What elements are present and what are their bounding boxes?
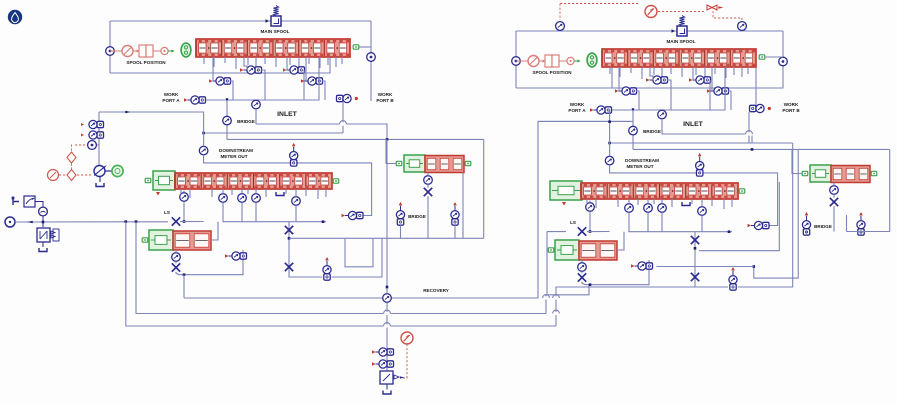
supply port circle bbox=[5, 217, 15, 227]
pressure pair b4r left bbox=[453, 202, 457, 205]
wire drop meter-5 right bbox=[671, 199, 673, 207]
wire drop meter-7 left bbox=[305, 189, 307, 196]
node left right bbox=[512, 57, 521, 66]
wire drop meter-3 left bbox=[231, 189, 233, 195]
svg-text:LS: LS bbox=[570, 220, 576, 225]
wire b3 curve left bbox=[176, 250, 243, 275]
wire drop m2 right bbox=[647, 199, 649, 204]
wire drop meter-5 left bbox=[265, 189, 267, 197]
wire bump at 387,326 bbox=[384, 324, 391, 327]
transducer pair d left bbox=[301, 79, 304, 83]
wire b3 down2 right bbox=[581, 271, 583, 273]
work port B transducer left bbox=[337, 95, 343, 101]
wire supply line bbox=[15, 221, 168, 223]
meter out transducer left bbox=[199, 146, 208, 155]
junction supply x136 bbox=[135, 220, 138, 223]
wire riser y140 left bbox=[226, 100, 228, 139]
svg-text:METER OUT: METER OUT bbox=[220, 154, 247, 159]
pressure source top right bbox=[738, 22, 747, 31]
node right left bbox=[367, 53, 376, 62]
inlet transducer left bbox=[252, 100, 261, 109]
orifice transducer m4 right bbox=[698, 207, 707, 216]
valve block main spool right bbox=[602, 49, 756, 67]
wire b4 up stub right bbox=[846, 215, 848, 232]
spool position sensor chain left bbox=[122, 46, 133, 57]
wire drop main-5 left bbox=[255, 57, 257, 68]
wire stack v3 bbox=[98, 139, 100, 166]
orifice transducer m3 left bbox=[252, 194, 261, 203]
wire row right bbox=[612, 68, 725, 110]
svg-text:METER OUT: METER OUT bbox=[626, 164, 653, 169]
svg-text:LS: LS bbox=[164, 210, 170, 215]
wire b4 d1 left bbox=[427, 173, 429, 176]
transducer pair c left bbox=[209, 79, 212, 83]
x valve LS left bbox=[172, 217, 180, 225]
wire pair b leads right bbox=[692, 67, 694, 80]
meter transducer pair end left bbox=[342, 214, 345, 218]
red diamond 2 bbox=[67, 170, 76, 181]
junction arrow stack left bbox=[125, 111, 130, 114]
wire b4 left stub right bbox=[792, 149, 802, 173]
work port B transducer right bbox=[750, 105, 756, 111]
wire spool chain right bbox=[516, 60, 528, 62]
green connector meter left right bbox=[551, 188, 557, 192]
wire bottom column bbox=[386, 302, 388, 371]
x valve LS right bbox=[578, 227, 586, 235]
wire box bottom left bbox=[110, 58, 330, 73]
bridge transducer right bbox=[629, 126, 638, 135]
svg-text:INLET: INLET bbox=[277, 111, 297, 118]
orifice box left bbox=[24, 196, 35, 207]
orifice transducer m2 left bbox=[238, 194, 247, 203]
svg-text:PORT A: PORT A bbox=[162, 98, 180, 103]
svg-text:MAIN SPOOL: MAIN SPOOL bbox=[666, 39, 695, 44]
wire pair a leads left bbox=[244, 57, 247, 70]
svg-text:INLET: INLET bbox=[683, 121, 703, 128]
junction b3 right bbox=[589, 283, 592, 286]
valve block 4 actuator right bbox=[810, 165, 831, 182]
node right right bbox=[779, 57, 788, 66]
junction col left bbox=[288, 237, 291, 240]
junction mo left bbox=[202, 132, 205, 135]
junction y140 right bbox=[751, 148, 754, 151]
valve block 4 right bbox=[831, 166, 870, 183]
wire line y140 left bbox=[227, 138, 484, 140]
wire LS stub right bbox=[589, 201, 591, 203]
tank under pump left bbox=[96, 183, 104, 187]
node top of pump bbox=[88, 141, 97, 150]
x valve col2 left bbox=[285, 263, 293, 271]
wire collector c left bbox=[255, 202, 257, 221]
junction supply x125 bbox=[125, 220, 128, 223]
wire drop main-0 left bbox=[203, 57, 205, 64]
wire line y140 right bbox=[633, 148, 890, 150]
wire b4 d2 right bbox=[833, 194, 835, 198]
wire bump at 343,124 bbox=[340, 122, 347, 125]
wire drop main-14 right bbox=[747, 67, 749, 74]
green ellipse pilot right bbox=[587, 53, 597, 67]
bridge pair b4 right bbox=[805, 212, 809, 215]
wire drop main-12 left bbox=[327, 57, 329, 65]
junction riser y287 bbox=[386, 286, 389, 289]
wire col bottom left bbox=[289, 271, 322, 277]
wire collector d right bbox=[701, 215, 703, 231]
wire drop meter-0 left bbox=[180, 189, 182, 195]
red gauge top bbox=[645, 6, 657, 18]
orifice transducer b4 left bbox=[424, 176, 433, 185]
green ellipse pilot left bbox=[181, 43, 191, 57]
pressure source mid right bbox=[698, 153, 702, 156]
wire drop main-1 right bbox=[619, 67, 621, 77]
wire drop main-14 left bbox=[341, 57, 343, 64]
wire main right to node right bbox=[765, 56, 783, 58]
valve block 3 actuator right bbox=[555, 240, 579, 260]
wire drop main-4 left bbox=[247, 57, 249, 65]
green connector meter right left bbox=[333, 179, 339, 183]
wire gauge stubs bbox=[42, 216, 44, 227]
wire row left bbox=[206, 58, 319, 100]
transducer pair b left bbox=[283, 68, 286, 72]
pressure source top left bbox=[556, 22, 565, 31]
junction col right bbox=[694, 247, 697, 250]
orifice transducer b3 left bbox=[172, 253, 181, 262]
wire b4 d3 right bbox=[833, 206, 835, 231]
wire box bottom right bbox=[516, 68, 612, 88]
bridge transducer left bbox=[223, 116, 232, 125]
junction arrow row left bbox=[226, 98, 229, 103]
wire drop m1 right bbox=[628, 199, 630, 204]
wire drop main-8 right bbox=[695, 67, 697, 75]
wire riser y140 right bbox=[632, 110, 634, 149]
pressure pair mid right bbox=[731, 267, 735, 270]
wire drop m4 right bbox=[701, 199, 703, 207]
wire drop meter-3 right bbox=[637, 199, 639, 205]
spring box main spool left bbox=[271, 16, 281, 26]
transducer pair b3 right bbox=[631, 264, 634, 268]
wire line3 turnup bbox=[556, 287, 695, 326]
wire collector left bbox=[223, 202, 326, 221]
red diamond 1 bbox=[67, 152, 76, 163]
meter block actuator right bbox=[550, 181, 582, 200]
wire drop meter-7 right bbox=[711, 199, 713, 206]
wire pair c leads right bbox=[618, 67, 620, 91]
wire x890 return right bbox=[847, 149, 890, 231]
pressure pair mid left bbox=[325, 257, 329, 260]
wire drop main-4 right bbox=[653, 67, 655, 75]
wire mo horizontal left bbox=[204, 132, 343, 134]
wire drop main-11 right bbox=[725, 67, 727, 78]
wire drop main-0 right bbox=[609, 67, 611, 74]
meter block actuator left bbox=[153, 171, 175, 190]
wire riser LS right bbox=[546, 232, 548, 295]
green connector b3 left right bbox=[548, 248, 554, 252]
wire drop main-12 right bbox=[733, 67, 735, 75]
transducer pair stack2 bbox=[89, 131, 97, 139]
wire bridge b4 down right bbox=[806, 232, 808, 236]
wire recovery riser bbox=[386, 139, 388, 293]
junction arrow row right bbox=[632, 108, 635, 113]
wire drop main-6 right bbox=[670, 67, 672, 74]
wire line2 turnup bbox=[546, 285, 589, 314]
transducer pair bottom1 bbox=[372, 350, 375, 354]
wire stack v2 bbox=[98, 129, 100, 132]
wire bump at 556,298 bbox=[553, 296, 560, 299]
wire drop main-2 right bbox=[630, 67, 632, 73]
wire stack vertical bbox=[98, 112, 100, 121]
wire work B drop right bbox=[755, 68, 757, 111]
pressure pair b4r right bbox=[859, 212, 863, 215]
red valve top right bbox=[707, 5, 717, 10]
arrow supply left bbox=[28, 221, 33, 224]
wire pair b4r down right bbox=[860, 232, 862, 236]
wire drop main-9 right bbox=[704, 67, 706, 80]
x valve col1 left bbox=[285, 226, 293, 234]
wire b4 right return left bbox=[462, 173, 464, 239]
wire drop m2 left bbox=[241, 189, 243, 194]
recovery transducer bbox=[383, 294, 392, 303]
junction LS right bbox=[589, 230, 592, 233]
wire drop main-3 left bbox=[235, 57, 237, 69]
x valve b4 left bbox=[424, 188, 432, 196]
wire drop meter-2 right bbox=[617, 199, 619, 207]
orifice transducer m3 right bbox=[658, 204, 667, 213]
wire pair d leads right bbox=[711, 67, 713, 91]
valve block 3 actuator left bbox=[149, 230, 173, 250]
wire drop main-13 right bbox=[741, 67, 743, 77]
wire bump at 749,134 bbox=[746, 132, 753, 135]
work port A transducer right bbox=[590, 108, 593, 112]
wire drop m4 left bbox=[295, 189, 297, 197]
wire drop meter-0 right bbox=[586, 199, 588, 205]
wire second riser right bbox=[754, 149, 798, 278]
svg-text:RECOVERY: RECOVERY bbox=[423, 288, 449, 293]
transducer pair a right bbox=[646, 78, 649, 82]
red gauge bottom bbox=[401, 332, 413, 344]
wire mo corner down right bbox=[738, 143, 793, 287]
wire bridge b4 down left bbox=[400, 225, 402, 238]
LS transducer left bbox=[180, 193, 189, 202]
junction b3 left bbox=[183, 273, 186, 276]
transducer pair bottom2 bbox=[372, 362, 375, 366]
wire pair b4r down left bbox=[454, 225, 456, 238]
junction x43 bbox=[42, 221, 45, 224]
wire pump down left bbox=[99, 177, 101, 183]
tank relief left bbox=[39, 248, 47, 252]
wire inlet stubs left bbox=[255, 99, 257, 101]
junction row right bbox=[608, 120, 611, 123]
wire drop meter-4 left bbox=[247, 189, 249, 194]
wire drop main-2 left bbox=[224, 57, 226, 63]
wire drop m1 left bbox=[222, 189, 224, 194]
wire pair link right bbox=[657, 266, 754, 268]
junction collector left bbox=[322, 220, 325, 223]
spool position sensor chain right bbox=[528, 56, 539, 67]
red dashed to pump bbox=[77, 174, 92, 176]
green connector b3 left left bbox=[142, 238, 148, 242]
wire spool chain left bbox=[110, 50, 122, 52]
wire orifice out bbox=[35, 202, 43, 208]
svg-text:DOWNSTREAM: DOWNSTREAM bbox=[625, 158, 659, 163]
wire b4 d3 left bbox=[427, 196, 429, 238]
wire mo vertical left bbox=[203, 133, 205, 146]
red arrow under actuator left bbox=[156, 192, 160, 196]
svg-text:SPOOL POSITION: SPOOL POSITION bbox=[126, 60, 166, 65]
wire x column right bbox=[694, 232, 696, 283]
svg-text:WORK: WORK bbox=[570, 102, 585, 107]
wire b3 down1 left bbox=[175, 250, 177, 253]
transducer pair c right bbox=[615, 89, 618, 93]
wire b3 down1 right bbox=[581, 260, 583, 263]
wire drop main-11 left bbox=[319, 57, 321, 68]
wire pair c leads left bbox=[212, 57, 214, 81]
wire drop meter-6 left bbox=[285, 189, 287, 194]
bridge pair b4 left bbox=[399, 202, 403, 205]
svg-text:SPOOL POSITION: SPOOL POSITION bbox=[532, 70, 572, 75]
junction y140 left bbox=[386, 138, 389, 141]
valve block 3 right bbox=[579, 241, 617, 260]
red circle transducer left bbox=[48, 170, 59, 181]
orifice transducer b3 right bbox=[578, 263, 587, 272]
red dot stack2 bbox=[81, 134, 84, 137]
junction pair link right bbox=[753, 265, 756, 268]
wire work B riser left bbox=[370, 57, 372, 101]
wire drop meter-8 left bbox=[317, 189, 319, 199]
wire b3 down2 left bbox=[175, 261, 177, 263]
wire pump shaft left bbox=[105, 170, 112, 172]
wire LS stub left bbox=[183, 191, 185, 193]
wire drop main-9 left bbox=[298, 57, 300, 70]
pressure source mid left bbox=[292, 143, 296, 146]
meter out transducer right bbox=[605, 156, 614, 165]
wire pair a leads right bbox=[650, 67, 653, 80]
red dashed stack link bbox=[97, 144, 100, 146]
wire drop main-10 left bbox=[308, 57, 310, 64]
green connector b4 right right bbox=[871, 171, 877, 175]
wire bottom tank link bbox=[386, 384, 388, 390]
red dashed gauge link bbox=[59, 174, 66, 176]
orifice transducer m1 right bbox=[625, 204, 634, 213]
svg-text:BRIDGE: BRIDGE bbox=[408, 214, 426, 219]
valve block main spool left bbox=[196, 39, 350, 57]
wire box right vertical left bbox=[370, 21, 372, 57]
svg-text:MAIN SPOOL: MAIN SPOOL bbox=[260, 29, 289, 34]
wire x column left bbox=[288, 222, 290, 273]
red dashed diamond column bbox=[71, 145, 73, 152]
wire drop main-7 left bbox=[275, 57, 277, 67]
green connector meter right right bbox=[739, 189, 745, 193]
wire supply line 2 bbox=[180, 221, 204, 223]
wire box left vertical left bbox=[109, 21, 111, 73]
valve block meter right bbox=[581, 183, 738, 199]
transducer pair a left bbox=[240, 68, 243, 72]
wire drop main-6 left bbox=[264, 57, 266, 64]
green connector b4 left left bbox=[396, 161, 402, 165]
red dashed bottom bbox=[401, 344, 407, 378]
inlet transducer right bbox=[658, 110, 667, 119]
wire top box right bbox=[516, 30, 677, 32]
red dashed valve down bbox=[713, 11, 742, 20]
wire main right to node left bbox=[359, 46, 371, 48]
wire recovery line bbox=[184, 121, 633, 298]
junction collector right bbox=[728, 230, 731, 233]
valve block meter left bbox=[175, 173, 332, 189]
node left left bbox=[106, 47, 115, 56]
wire work B down right bbox=[748, 112, 750, 143]
wire box left vertical right bbox=[515, 31, 517, 88]
wire y250 right bbox=[699, 182, 779, 251]
wire bump at 546,298 bbox=[543, 296, 550, 299]
wire box right vertical right bbox=[782, 31, 784, 67]
wire col bottom right bbox=[695, 281, 728, 287]
wire relief down bbox=[42, 242, 44, 247]
x valve b3 right bbox=[578, 273, 586, 281]
wire drop meter-1 right bbox=[595, 199, 597, 208]
red dot stack1 bbox=[81, 123, 84, 126]
wire drop main-3 right bbox=[641, 67, 643, 79]
relief valve block left bbox=[37, 228, 50, 242]
wire mo horizontal right bbox=[610, 142, 793, 144]
wire drop main-1 left bbox=[213, 57, 215, 67]
x valve col2 right bbox=[691, 273, 699, 281]
wire drop m3 right bbox=[661, 199, 663, 204]
svg-text:DOWNSTREAM: DOWNSTREAM bbox=[219, 148, 253, 153]
green connector b4 right left bbox=[465, 161, 471, 165]
wire drop meter-4 right bbox=[653, 199, 655, 204]
wire y140 riser down left bbox=[483, 139, 485, 238]
wire stack row left bbox=[99, 112, 204, 133]
wire pair d leads left bbox=[305, 57, 307, 81]
svg-text:BRIDGE: BRIDGE bbox=[814, 224, 832, 229]
wire drop meter-8 right bbox=[723, 199, 725, 209]
orifice transducer b4 right bbox=[830, 186, 839, 195]
logo drop icon bbox=[8, 10, 22, 24]
red dashed gauge to valve bbox=[658, 11, 704, 13]
spring box main spool right bbox=[677, 26, 687, 36]
valve block 4 actuator left bbox=[404, 155, 425, 172]
wire b4 d1 right bbox=[833, 183, 835, 186]
orifice transducer m2 right bbox=[644, 204, 653, 213]
svg-text:WORK: WORK bbox=[164, 92, 179, 97]
svg-text:BRIDGE: BRIDGE bbox=[643, 129, 661, 134]
wire y238 left bbox=[289, 237, 484, 239]
svg-text:PORT B: PORT B bbox=[782, 108, 800, 113]
LS transducer right bbox=[586, 203, 595, 212]
green connector meter left left bbox=[145, 178, 151, 182]
wire drop m3 left bbox=[255, 189, 257, 194]
wire drop main-7 right bbox=[681, 67, 683, 77]
transducer pair b3 left bbox=[225, 254, 228, 258]
orifice transducer m1 left bbox=[219, 194, 228, 203]
x valve b3 left bbox=[172, 263, 180, 271]
orifice transducer m4 left bbox=[292, 197, 301, 206]
svg-text:PORT A: PORT A bbox=[568, 108, 586, 113]
valve block 4 left bbox=[425, 156, 464, 173]
gauge transducer left2 bbox=[39, 207, 48, 216]
x valve b4 right bbox=[830, 198, 838, 206]
wire bump at 387,313.5 bbox=[384, 312, 391, 315]
wire collector b left bbox=[241, 202, 243, 221]
wire work B down left bbox=[342, 102, 344, 133]
connector T left bbox=[13, 198, 19, 205]
svg-text:BRIDGE: BRIDGE bbox=[237, 119, 255, 124]
wire drop meter-9 right bbox=[731, 199, 733, 207]
wire b4 left stub left bbox=[386, 139, 396, 163]
wire drop main-8 left bbox=[289, 57, 291, 65]
tank bottom bbox=[383, 391, 391, 395]
wire collector right bbox=[629, 212, 732, 231]
transducer pair d right bbox=[707, 89, 710, 93]
wire drop meter-1 left bbox=[189, 189, 191, 198]
